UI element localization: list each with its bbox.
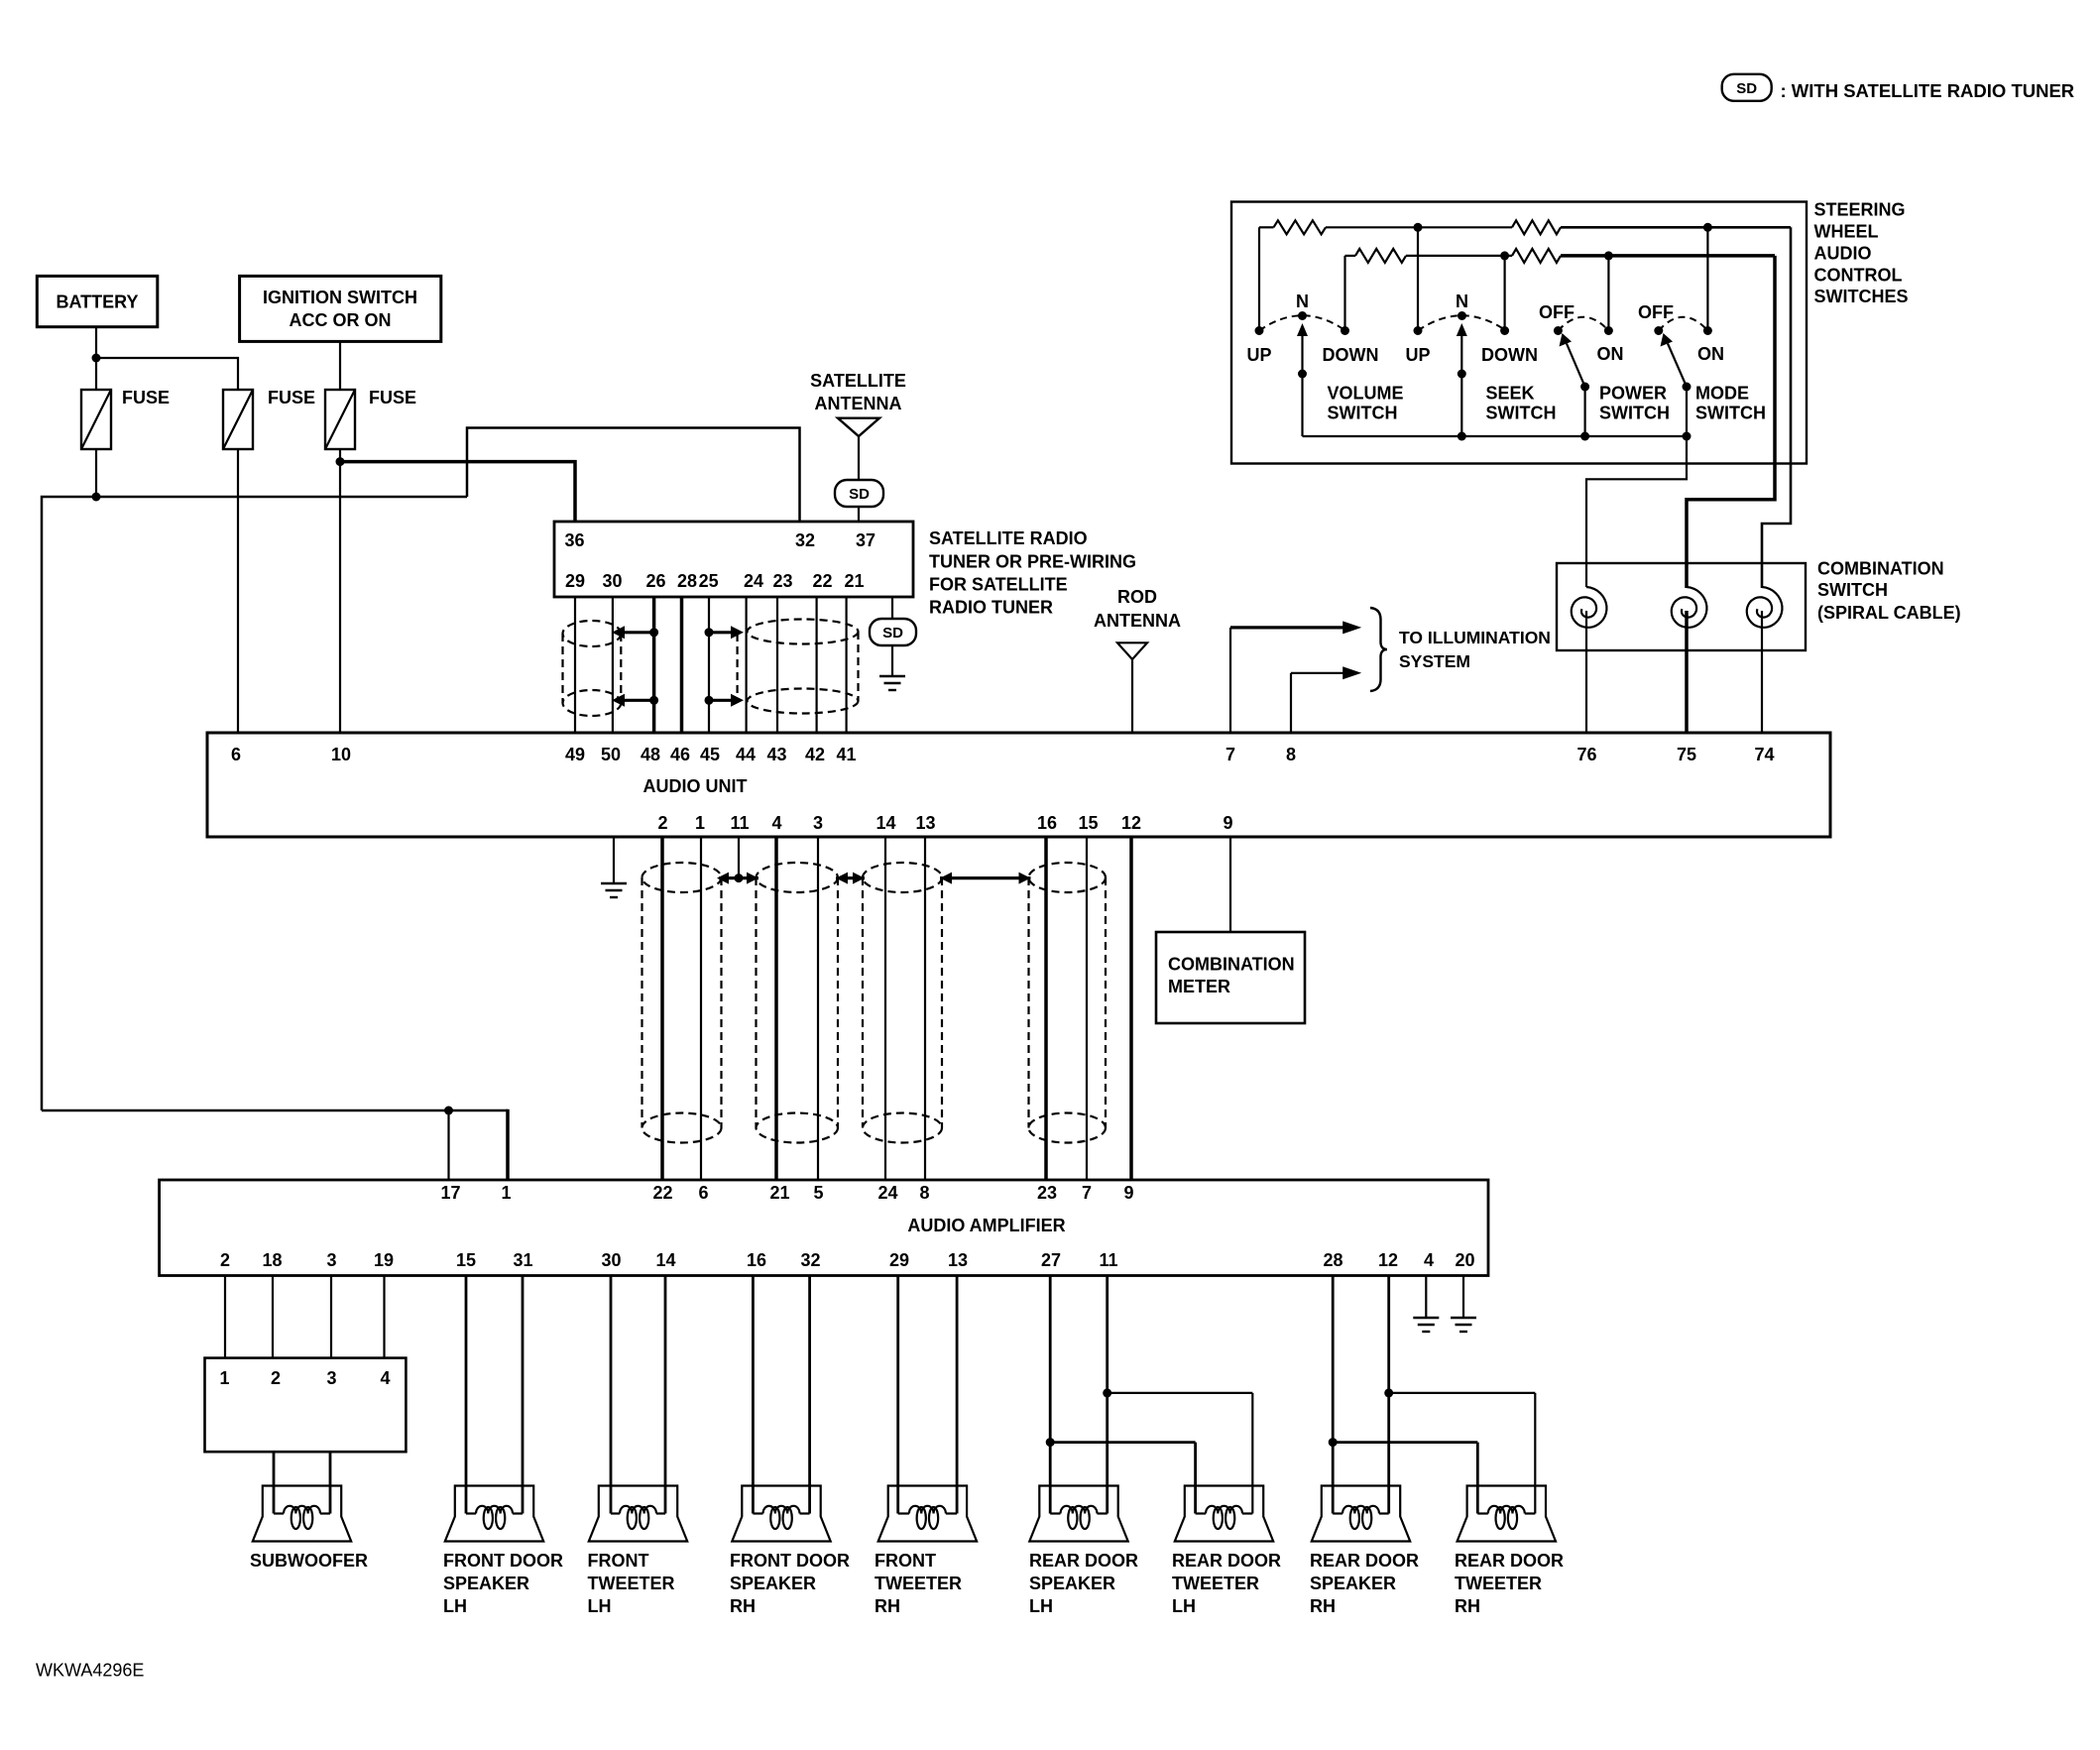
shield1 drain side [620, 634, 622, 700]
node fuse3 junction [336, 457, 345, 466]
svg-text:23: 23 [1037, 1183, 1057, 1203]
svg-text:COMBINATION: COMBINATION [1817, 559, 1944, 579]
svg-text:12: 12 [1378, 1250, 1398, 1270]
subwoofer connector box [205, 1358, 407, 1453]
svg-text:10: 10 [331, 745, 351, 764]
svg-text:24: 24 [877, 1183, 897, 1203]
svg-text:36: 36 [564, 530, 584, 550]
svg-text:18: 18 [262, 1250, 282, 1270]
wire amp to front door speaker RH + [752, 1276, 755, 1514]
svg-text:SWITCH: SWITCH [1599, 404, 1670, 423]
svg-text:13: 13 [915, 813, 935, 833]
node seek N [1458, 311, 1466, 320]
svg-text:ACC OR ON: ACC OR ON [290, 310, 392, 330]
combination switch box [1557, 563, 1806, 650]
wire row2 left riser (DOWN1) [1343, 256, 1345, 331]
svg-text:21: 21 [844, 571, 864, 591]
svg-text:FRONT: FRONT [588, 1551, 649, 1571]
node row2-ON1 [1604, 251, 1613, 260]
wire audio pin7 up [1229, 628, 1231, 733]
node bus power [1580, 432, 1589, 441]
node battery junction [92, 354, 101, 363]
volume switch arc [1259, 315, 1345, 330]
svg-text:ANTENNA: ANTENNA [815, 394, 902, 413]
wire ignition to fuse3 [339, 341, 341, 390]
svg-text:DOWN: DOWN [1481, 345, 1538, 365]
node row2-DOWN2 [1500, 251, 1509, 260]
svg-text:FUSE: FUSE [268, 388, 315, 408]
svg-text:RH: RH [730, 1596, 756, 1616]
wire battery bus [42, 497, 467, 1110]
svg-text:74: 74 [1754, 745, 1774, 764]
svg-text:SUBWOOFER: SUBWOOFER [250, 1551, 368, 1571]
svg-text:23: 23 [772, 571, 792, 591]
svg-text:CONTROL: CONTROL [1814, 266, 1903, 286]
wire seek pole to bus [1460, 374, 1462, 436]
svg-text:42: 42 [805, 745, 825, 764]
battery box [37, 276, 158, 326]
svg-text:METER: METER [1168, 977, 1230, 996]
svg-text:4: 4 [380, 1368, 390, 1388]
wire audio-amp x1141 [1129, 837, 1133, 1180]
wire amp to front tweeter LH - [664, 1276, 667, 1514]
shield1 top drain bar [619, 631, 654, 634]
svg-text:POWER: POWER [1599, 384, 1667, 404]
wire audio-amp x1096 [1086, 837, 1088, 1180]
svg-text:4: 4 [1424, 1250, 1434, 1270]
svg-text:FOR SATELLITE: FOR SATELLITE [929, 575, 1068, 595]
svg-text:75: 75 [1677, 745, 1696, 764]
wire audio-amp x745 [738, 837, 740, 878]
svg-text:7: 7 [1225, 745, 1235, 764]
illumination brace [1370, 608, 1387, 691]
svg-text:4: 4 [771, 813, 781, 833]
svg-text:TO ILLUMINATION: TO ILLUMINATION [1399, 628, 1551, 647]
svg-text:: WITH SATELLITE RADIO TUNER: : WITH SATELLITE RADIO TUNER [1781, 80, 2075, 101]
svg-text:ON: ON [1697, 344, 1724, 364]
wire bus to spiral1 [1586, 436, 1687, 587]
node pin27 branch [1046, 1438, 1055, 1447]
svg-text:RADIO TUNER: RADIO TUNER [929, 598, 1053, 618]
wire fuse3 to audio pin10 [339, 449, 341, 733]
svg-text:AUDIO UNIT: AUDIO UNIT [643, 776, 748, 796]
svg-text:26: 26 [645, 571, 665, 591]
contact DOWN2 [1500, 326, 1509, 335]
wire branch to RD tweeter RH + [1333, 1441, 1477, 1444]
spiral cable 2 [1672, 587, 1707, 628]
svg-text:MODE: MODE [1695, 384, 1749, 404]
SD2 badge [870, 619, 916, 645]
shield bar B-C [836, 876, 865, 879]
svg-text:TWEETER: TWEETER [875, 1574, 962, 1593]
svg-text:IGNITION SWITCH: IGNITION SWITCH [263, 288, 417, 307]
node volume pole [1298, 370, 1307, 379]
shield bar C-D [940, 876, 1031, 879]
svg-text:5: 5 [813, 1183, 823, 1203]
wire ON1 riser [1607, 256, 1609, 331]
svg-text:32: 32 [800, 1250, 820, 1270]
cable shield cylinder B [757, 863, 839, 892]
speaker front tweeter RH [878, 1486, 977, 1542]
wire SD2 to ground [891, 645, 893, 676]
svg-text:LH: LH [443, 1596, 467, 1616]
wire amp to front door speaker LH + [465, 1276, 468, 1514]
svg-text:24: 24 [744, 571, 763, 591]
wire tuner-audio x784 [776, 597, 778, 733]
wire fuse3 to tuner pin36 [340, 462, 575, 522]
svg-text:RH: RH [1310, 1596, 1336, 1616]
svg-text:SWITCH: SWITCH [1328, 404, 1398, 423]
wire spiral2 to audio pin75 [1685, 611, 1689, 733]
wire row1 right [1561, 226, 1791, 229]
node power pole [1580, 383, 1589, 392]
wire row1 left riser (UP1) [1258, 227, 1260, 330]
contact OFF1 [1554, 326, 1563, 335]
svg-text:TWEETER: TWEETER [1172, 1574, 1259, 1593]
svg-text:22: 22 [652, 1183, 672, 1203]
wire row1 to spiral3 [1762, 227, 1791, 588]
svg-text:8: 8 [1286, 745, 1296, 764]
contact ON2 [1703, 326, 1712, 335]
wire amp feed bus [42, 1109, 508, 1112]
svg-text:OFF: OFF [1638, 302, 1674, 322]
svg-text:ON: ON [1597, 344, 1624, 364]
svg-text:RH: RH [875, 1596, 900, 1616]
node bus seek [1458, 432, 1466, 441]
wire amp-sub x387.5 [383, 1276, 385, 1358]
svg-text:REAR DOOR: REAR DOOR [1172, 1551, 1281, 1571]
svg-text:TWEETER: TWEETER [588, 1574, 675, 1593]
node seek pole [1458, 370, 1466, 379]
ground amp pin20 [1451, 1317, 1476, 1319]
contact UP2 [1414, 326, 1423, 335]
svg-text:48: 48 [641, 745, 660, 764]
svg-text:28: 28 [677, 571, 697, 591]
fuse F2 [223, 390, 253, 449]
svg-text:TWEETER: TWEETER [1455, 1574, 1542, 1593]
svg-text:SWITCHES: SWITCHES [1814, 287, 1909, 306]
ground audio unit [601, 882, 627, 884]
svg-text:9: 9 [1123, 1183, 1133, 1203]
shield1 bottom drain bar [619, 699, 654, 702]
shield2 top ellipse [748, 620, 859, 644]
svg-text:8: 8 [919, 1183, 929, 1203]
svg-text:32: 32 [795, 530, 815, 550]
svg-text:N: N [1296, 292, 1309, 311]
wire DOWN2 riser [1503, 256, 1505, 331]
cable shield cylinder D [1029, 863, 1107, 892]
contact ON1 [1604, 326, 1613, 335]
contact OFF2 [1654, 326, 1663, 335]
wire sub to speaker left [273, 1452, 276, 1513]
svg-text:28: 28 [1323, 1250, 1342, 1270]
svg-text:15: 15 [456, 1250, 476, 1270]
svg-text:16: 16 [1037, 813, 1057, 833]
svg-text:AUDIO AMPLIFIER: AUDIO AMPLIFIER [907, 1216, 1065, 1235]
fuse F3 [325, 390, 355, 449]
svg-text:30: 30 [602, 571, 622, 591]
wire amp pin28 down [1332, 1276, 1335, 1514]
wire amp pin11 down [1106, 1276, 1108, 1514]
shield2 drain side [736, 634, 738, 699]
svg-text:SD: SD [882, 625, 903, 642]
svg-text:SPEAKER: SPEAKER [1029, 1574, 1115, 1593]
wire amp pin27 down [1049, 1276, 1052, 1514]
wire branch to RD tweeter RH - [1389, 1392, 1536, 1394]
wire audio pin9 to meter [1229, 837, 1231, 932]
wire amp to front door speaker LH - [522, 1276, 525, 1514]
svg-text:N: N [1456, 292, 1468, 311]
wire spiral1 to audio pin76 [1585, 611, 1587, 733]
ground amp pin4 [1413, 1317, 1439, 1319]
svg-text:20: 20 [1455, 1250, 1474, 1270]
svg-text:SWITCH: SWITCH [1817, 580, 1888, 600]
contact UP1 [1255, 326, 1264, 335]
subwoofer speaker [253, 1486, 351, 1542]
wire audio-amp x707 [700, 837, 702, 1180]
svg-text:FUSE: FUSE [369, 388, 416, 408]
svg-text:50: 50 [601, 745, 621, 764]
wire antenna to SD1 [858, 436, 860, 481]
svg-text:7: 7 [1082, 1183, 1092, 1203]
power switch arm [1567, 344, 1585, 388]
wire row2 right [1561, 254, 1775, 258]
wire amp to front door speaker RH - [808, 1276, 811, 1514]
wire ON2 riser [1706, 227, 1708, 330]
wire amp-sub x227 [224, 1276, 226, 1358]
wire UP2 riser [1417, 227, 1419, 330]
svg-text:44: 44 [736, 745, 756, 764]
steering wheel switch box [1231, 202, 1807, 464]
wire branch to RD tweeter LH - [1108, 1392, 1253, 1394]
svg-text:FRONT DOOR: FRONT DOOR [730, 1551, 850, 1571]
svg-text:3: 3 [813, 813, 823, 833]
svg-text:(SPIRAL CABLE): (SPIRAL CABLE) [1817, 603, 1961, 623]
svg-text:43: 43 [766, 745, 786, 764]
cable shield cylinder A [642, 863, 722, 892]
svg-text:14: 14 [875, 813, 895, 833]
audio unit box [207, 733, 1830, 837]
satellite antenna symbol [838, 418, 879, 436]
svg-text:2: 2 [220, 1250, 230, 1270]
wire power pole to bus [1583, 387, 1585, 436]
speaker front tweeter LH [589, 1486, 687, 1542]
wire amp-sub x275 [272, 1276, 274, 1358]
svg-text:SPEAKER: SPEAKER [443, 1574, 529, 1593]
wire tuner-audio x659.6 [652, 597, 656, 733]
svg-text:15: 15 [1078, 813, 1098, 833]
wire tuner-audio x823.6 [815, 597, 817, 733]
svg-text:OFF: OFF [1539, 302, 1575, 322]
wire amp pin12 down [1387, 1276, 1390, 1514]
svg-text:FRONT: FRONT [875, 1551, 936, 1571]
svg-text:UP: UP [1405, 345, 1430, 365]
wire battery down [95, 327, 97, 390]
svg-text:SPEAKER: SPEAKER [730, 1574, 816, 1593]
ignition switch box [240, 276, 441, 341]
svg-text:13: 13 [948, 1250, 968, 1270]
svg-text:FUSE: FUSE [122, 388, 170, 408]
svg-text:WKWA4296E: WKWA4296E [36, 1661, 144, 1681]
svg-text:3: 3 [326, 1368, 336, 1388]
node row1-UP2 [1414, 223, 1423, 232]
svg-text:SD: SD [1736, 80, 1757, 97]
svg-text:DOWN: DOWN [1323, 345, 1379, 365]
svg-text:SWITCH: SWITCH [1486, 404, 1557, 423]
svg-text:9: 9 [1223, 813, 1232, 833]
wire audio-amp x933 [924, 837, 926, 1180]
svg-text:AUDIO: AUDIO [1814, 244, 1872, 264]
node row1-ON2 [1703, 223, 1712, 232]
svg-text:46: 46 [670, 745, 690, 764]
shield1 bottom ellipse [563, 690, 622, 716]
wire feed to amp pin17 [447, 1110, 449, 1180]
ground SD2 [879, 675, 905, 677]
wire row2 mid [1406, 255, 1512, 257]
wire SD1 to tuner pin37 [858, 507, 860, 523]
wire audio-amp x783 [774, 837, 778, 1180]
wire amp-sub x334 [330, 1276, 332, 1358]
rod antenna symbol [1117, 642, 1147, 659]
svg-text:31: 31 [513, 1250, 532, 1270]
shield1 left side [561, 634, 563, 703]
svg-text:SWITCH: SWITCH [1695, 404, 1766, 423]
shield2 right side [857, 632, 859, 701]
shield2 bottom ellipse [748, 689, 859, 714]
shield bar A-11-B [719, 876, 758, 879]
svg-text:FRONT DOOR: FRONT DOOR [443, 1551, 563, 1571]
seek switch arm [1460, 335, 1462, 374]
wire bus to tuner pin32 [467, 428, 800, 523]
wire volume pole to bus [1301, 374, 1303, 436]
wire amp to front tweeter LH + [610, 1276, 613, 1514]
svg-text:37: 37 [856, 530, 875, 550]
SD legend badge [1722, 74, 1772, 101]
node bus mode [1683, 432, 1692, 441]
wire row1 mid [1326, 226, 1512, 228]
node pin28 branch [1329, 1438, 1338, 1447]
spiral cable 3 [1747, 587, 1783, 628]
wire fuse1 down [95, 449, 97, 497]
svg-text:30: 30 [601, 1250, 621, 1270]
wire amp pin4 ground stub [1425, 1276, 1427, 1319]
wire tuner-audio x580 [574, 597, 576, 733]
svg-text:SYSTEM: SYSTEM [1399, 651, 1470, 671]
svg-text:SD: SD [849, 486, 870, 503]
svg-text:LH: LH [588, 1596, 612, 1616]
cable shield cylinder C [863, 863, 942, 892]
resistor R2 [1345, 255, 1356, 257]
svg-text:41: 41 [836, 745, 856, 764]
svg-text:22: 22 [812, 571, 832, 591]
audio amplifier box [160, 1180, 1488, 1276]
wire mode pole to bus [1686, 387, 1688, 436]
svg-text:REAR DOOR: REAR DOOR [1455, 1551, 1564, 1571]
wire rod antenna to audio unit [1131, 659, 1133, 733]
wire tuner-audio x752.6 [745, 597, 747, 733]
svg-text:LH: LH [1029, 1596, 1053, 1616]
wire pin7 arrow [1230, 626, 1343, 629]
wire spiral3 to audio pin74 [1761, 611, 1763, 733]
svg-text:UP: UP [1246, 345, 1271, 365]
node volume N [1298, 311, 1307, 320]
speaker rear door tweeter LH [1175, 1486, 1273, 1542]
wire audio-amp x825 [817, 837, 819, 1180]
svg-text:12: 12 [1121, 813, 1141, 833]
svg-text:STEERING: STEERING [1814, 200, 1906, 220]
fuse F1 [81, 390, 111, 449]
wire amp to front tweeter RH - [956, 1276, 959, 1514]
spiral cable 1 [1572, 587, 1607, 628]
svg-text:27: 27 [1041, 1250, 1061, 1270]
svg-text:19: 19 [374, 1250, 394, 1270]
seek switch arc [1418, 315, 1506, 330]
wire pin8 arrow [1291, 672, 1343, 674]
wire amp pin20 ground stub [1462, 1276, 1464, 1319]
svg-text:1: 1 [219, 1368, 229, 1388]
svg-text:WHEEL: WHEEL [1814, 222, 1879, 242]
contact DOWN1 [1341, 326, 1349, 335]
wire switch common bus [1303, 435, 1688, 437]
svg-text:TUNER OR PRE-WIRING: TUNER OR PRE-WIRING [929, 552, 1136, 572]
wire tuner SD2 stub [891, 597, 893, 619]
wire audio pin8 up [1290, 673, 1292, 733]
svg-text:17: 17 [440, 1183, 460, 1203]
wire audio-amp x1055 [1044, 837, 1048, 1180]
svg-text:29: 29 [565, 571, 585, 591]
wire feed to amp pin1 [506, 1109, 510, 1180]
speaker rear door speaker LH [1029, 1486, 1127, 1542]
svg-text:SEEK: SEEK [1486, 384, 1535, 404]
svg-text:2: 2 [271, 1368, 281, 1388]
svg-text:3: 3 [326, 1250, 336, 1270]
wire tuner-audio x853.6 [845, 597, 847, 733]
node pin11 branch [1103, 1388, 1111, 1397]
svg-text:2: 2 [657, 813, 667, 833]
wire audio ground stub [613, 837, 615, 883]
svg-text:REAR DOOR: REAR DOOR [1310, 1551, 1419, 1571]
wire audio-amp x893 [884, 837, 886, 1180]
wire amp to front tweeter RH + [896, 1276, 899, 1514]
wire branch to RD tweeter LH + [1050, 1441, 1195, 1444]
svg-text:29: 29 [889, 1250, 909, 1270]
svg-text:RH: RH [1455, 1596, 1480, 1616]
resistor R4 [1512, 249, 1561, 263]
shield1 top ellipse [563, 621, 622, 646]
node amp feed junction [444, 1107, 453, 1115]
speaker rear door speaker RH [1312, 1486, 1410, 1542]
svg-text:49: 49 [565, 745, 585, 764]
svg-text:21: 21 [769, 1183, 789, 1203]
svg-text:16: 16 [747, 1250, 766, 1270]
volume switch arm [1301, 335, 1303, 374]
wire fuse2 to audio pin6 [237, 449, 239, 733]
wire tuner-audio x715 [708, 597, 710, 733]
speaker front door speaker RH [732, 1486, 830, 1542]
mode switch arm [1668, 344, 1687, 388]
satellite radio tuner box [554, 522, 913, 597]
svg-text:6: 6 [698, 1183, 708, 1203]
svg-text:25: 25 [699, 571, 719, 591]
svg-text:SATELLITE: SATELLITE [810, 371, 906, 391]
node mode pole [1683, 383, 1692, 392]
wire tuner-audio x617.9 [612, 597, 614, 733]
svg-text:SATELLITE RADIO: SATELLITE RADIO [929, 528, 1088, 548]
shield2 top drain bar [705, 628, 714, 637]
mode switch arc [1659, 317, 1708, 331]
svg-text:6: 6 [231, 745, 241, 764]
wire row2 to spiral2 [1687, 256, 1775, 588]
